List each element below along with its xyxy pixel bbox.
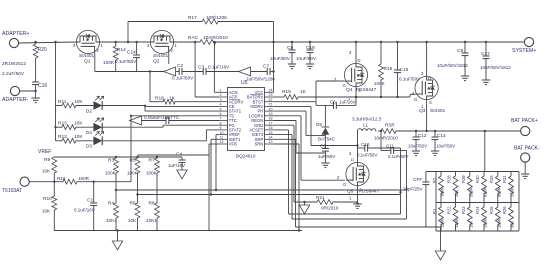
svg-text:R31: R31	[502, 175, 507, 183]
svg-text:1uF/50V: 1uF/50V	[318, 154, 336, 159]
svg-text:C15: C15	[400, 67, 409, 73]
wire	[102, 130, 219, 141]
wire	[130, 116, 132, 182]
ground	[306, 64, 314, 69]
svg-text:21: 21	[269, 103, 273, 107]
resistor R9	[42, 157, 57, 182]
wire	[213, 41, 219, 93]
capacitor C2	[172, 63, 194, 81]
resistor RSR	[374, 123, 520, 141]
wire gate row	[95, 71, 274, 73]
svg-text:910K: 910K	[483, 187, 488, 197]
svg-text:100K: 100K	[374, 81, 386, 86]
svg-text:24: 24	[269, 89, 273, 93]
svg-text:15: 15	[269, 131, 273, 135]
svg-text:T5103AT: T5103AT	[2, 188, 22, 194]
svg-text:10uF/50V: 10uF/50V	[436, 144, 455, 149]
capacitor C17	[480, 41, 511, 80]
ground arrow	[435, 227, 445, 260]
svg-text:G: G	[414, 97, 417, 102]
resistor R7	[146, 156, 159, 203]
svg-text:C12: C12	[418, 133, 427, 138]
svg-text:R2: R2	[432, 177, 437, 183]
ground arrow	[112, 229, 122, 250]
svg-text:13: 13	[269, 140, 273, 144]
svg-text:16: 16	[269, 126, 273, 130]
svg-text:C3: C3	[198, 65, 204, 71]
svg-text:0R/2010: 0R/2010	[321, 206, 339, 211]
label	[347, 189, 380, 195]
resistor R1	[432, 203, 445, 232]
resistor R29	[461, 172, 474, 203]
svg-text:R21: R21	[316, 195, 325, 200]
net VREF	[38, 149, 51, 155]
svg-text:R24: R24	[475, 206, 480, 214]
transistor Q3	[412, 76, 438, 109]
svg-text:D: D	[358, 58, 361, 63]
svg-text:R17: R17	[188, 15, 197, 21]
svg-text:C11: C11	[386, 144, 395, 149]
svg-text:100R: 100R	[78, 176, 90, 181]
wire	[209, 144, 219, 231]
svg-text:11: 11	[220, 136, 224, 140]
resistor R11	[56, 99, 94, 108]
svg-text:900K: 900K	[496, 187, 501, 197]
svg-text:130K: 130K	[483, 218, 488, 228]
svg-text:R26: R26	[502, 206, 507, 214]
svg-text:R8: R8	[149, 201, 155, 207]
svg-text:R28: R28	[447, 175, 452, 183]
svg-text:R19: R19	[282, 89, 291, 95]
transistor Q1	[73, 30, 104, 64]
svg-text:1: 1	[220, 89, 222, 93]
svg-text:D: D	[351, 157, 354, 162]
resistor R12	[56, 134, 94, 143]
svg-text:R14: R14	[117, 47, 126, 53]
svg-text:7: 7	[220, 117, 222, 121]
wire	[130, 115, 219, 117]
resistor R26	[502, 203, 515, 232]
wire	[274, 121, 326, 154]
transistor Q2	[147, 30, 178, 64]
resistor R25	[489, 203, 502, 232]
svg-text:19: 19	[269, 112, 273, 116]
svg-text:2.2uF/50V: 2.2uF/50V	[2, 71, 25, 77]
svg-text:330K: 330K	[510, 187, 515, 197]
svg-text:R11: R11	[58, 99, 67, 105]
svg-text:C10: C10	[361, 142, 370, 147]
svg-text:CFF: CFF	[413, 177, 422, 183]
wire	[54, 41, 56, 141]
svg-text:Q5: Q5	[347, 189, 354, 195]
svg-text:R15: R15	[384, 66, 393, 72]
resistor R19	[274, 89, 416, 99]
capacitor C13	[432, 130, 456, 151]
svg-text:10uF/50V: 10uF/50V	[408, 144, 427, 149]
resistor R6	[128, 201, 140, 231]
wire	[210, 139, 219, 195]
svg-text:0.1uF/50V: 0.1uF/50V	[115, 59, 137, 64]
svg-text:R9: R9	[44, 157, 50, 163]
wire bank top	[426, 171, 519, 173]
svg-text:D5: D5	[316, 122, 322, 127]
LED D2	[86, 96, 104, 113]
wire	[518, 172, 520, 232]
LED D4	[86, 118, 104, 135]
resistor R24	[475, 203, 488, 232]
svg-text:SI4401: SI4401	[79, 53, 95, 59]
svg-text:3: 3	[220, 98, 222, 102]
wire	[54, 230, 302, 232]
svg-text:C7: C7	[263, 64, 269, 70]
resistor R20	[2, 41, 47, 77]
resistor R17	[188, 15, 274, 24]
svg-text:Q3: Q3	[419, 108, 426, 114]
svg-text:C4: C4	[176, 152, 182, 158]
resistor R18	[149, 70, 219, 104]
svg-text:R3: R3	[108, 158, 114, 164]
capacitor C3	[198, 65, 230, 76]
node arrow	[164, 67, 176, 76]
svg-text:R25: R25	[489, 206, 494, 214]
svg-text:22K1: 22K1	[146, 218, 157, 223]
capacitor C15	[394, 41, 421, 97]
svg-text:10K: 10K	[74, 121, 83, 127]
capacitor C5	[318, 144, 336, 164]
capacitor C16	[32, 58, 47, 98]
wire	[421, 41, 431, 81]
ground	[482, 80, 490, 85]
svg-text:10uF/50V: 10uF/50V	[270, 56, 291, 61]
svg-text:10: 10	[220, 131, 224, 135]
svg-text:100K: 100K	[127, 171, 139, 176]
svg-text:0.1uF/50V: 0.1uF/50V	[357, 153, 377, 158]
svg-text:R6: R6	[130, 201, 136, 207]
wire main rail	[19, 42, 525, 43]
resistor R14	[103, 41, 126, 72]
svg-text:0.1uF/50V: 0.1uF/50V	[172, 76, 194, 81]
capacitor C12	[408, 130, 427, 151]
svg-text:100K: 100K	[496, 218, 501, 228]
svg-text:R33: R33	[489, 175, 494, 183]
svg-text:1uF/16V: 1uF/16V	[339, 100, 356, 105]
svg-text:C16: C16	[38, 83, 47, 89]
wire	[102, 105, 219, 111]
svg-text:23: 23	[269, 93, 273, 97]
wire	[138, 155, 209, 157]
node	[355, 96, 399, 98]
wire	[274, 111, 326, 136]
svg-text:10K: 10K	[42, 169, 51, 174]
svg-text:R20: R20	[38, 47, 47, 53]
svg-text:5: 5	[220, 107, 222, 111]
wire	[405, 151, 407, 220]
svg-text:R18: R18	[155, 96, 164, 102]
capacitor CFF	[403, 172, 429, 228]
wire	[484, 130, 486, 172]
resistor R30	[475, 172, 488, 203]
svg-text:6: 6	[220, 112, 222, 116]
wire	[194, 41, 219, 97]
svg-text:10K: 10K	[74, 134, 83, 140]
svg-text:2: 2	[220, 93, 222, 97]
wire	[272, 22, 274, 93]
capacitor C8	[270, 41, 296, 64]
svg-text:R16: R16	[57, 176, 66, 181]
resistor R33	[489, 172, 502, 203]
capacitor C9	[437, 41, 469, 76]
svg-text:D4: D4	[86, 130, 92, 135]
connector ADAPTER-	[2, 86, 37, 103]
svg-text:R12: R12	[58, 134, 67, 140]
connector ADAPTER+	[2, 31, 30, 48]
svg-text:R30: R30	[475, 175, 480, 183]
svg-text:D2: D2	[86, 109, 92, 114]
svg-text:C13: C13	[437, 133, 446, 138]
svg-text:SI4401: SI4401	[430, 108, 446, 114]
svg-text:S: S	[429, 100, 432, 105]
svg-text:Q4: Q4	[346, 87, 353, 93]
node arrow	[239, 67, 251, 76]
label	[419, 108, 446, 114]
ground arrow	[299, 201, 309, 214]
wire	[274, 135, 407, 219]
svg-text:Q2: Q2	[153, 59, 160, 65]
wire	[94, 54, 96, 72]
capacitor C4	[168, 152, 186, 171]
svg-text:C17: C17	[481, 51, 490, 57]
svg-text:BAT54C: BAT54C	[318, 137, 336, 142]
svg-text:D3: D3	[86, 144, 92, 149]
svg-text:FDS6447: FDS6447	[356, 87, 377, 93]
wire	[215, 135, 219, 192]
resistor R16	[53, 176, 131, 184]
svg-text:22pF/25V: 22pF/25V	[403, 187, 423, 192]
wire	[274, 125, 318, 202]
svg-text:30K: 30K	[454, 189, 459, 197]
wire	[349, 41, 361, 64]
resistor R28	[447, 172, 460, 203]
resistor R8	[146, 201, 159, 231]
svg-text:ADAPTER+: ADAPTER+	[2, 31, 30, 37]
ground	[321, 163, 329, 168]
svg-text:C14: C14	[127, 50, 136, 56]
svg-text:4: 4	[220, 103, 222, 107]
wire	[274, 106, 358, 145]
svg-text:R23: R23	[461, 206, 466, 214]
wire	[102, 125, 219, 127]
resistor R13	[54, 121, 93, 130]
svg-text:10K: 10K	[74, 99, 83, 105]
ground	[288, 64, 296, 69]
svg-text:C6: C6	[330, 100, 336, 105]
svg-text:9: 9	[220, 126, 222, 130]
svg-text:VREF: VREF	[38, 149, 51, 155]
svg-text:30K: 30K	[510, 220, 515, 228]
capacitor C18	[296, 41, 317, 64]
wire	[127, 22, 202, 44]
op-amp U5 BQ24610	[219, 80, 274, 159]
ground	[412, 151, 420, 156]
svg-text:R5: R5	[130, 158, 136, 164]
capacitor C14	[115, 41, 140, 72]
ground arrow	[177, 170, 187, 179]
svg-text:10mR/2010: 10mR/2010	[374, 136, 398, 141]
resistor R31	[502, 172, 515, 203]
wire long FB1	[115, 189, 407, 191]
svg-text:SYSTEM+: SYSTEM+	[512, 48, 536, 54]
connector BAT-PACK-	[514, 146, 540, 175]
svg-text:10K: 10K	[468, 220, 473, 228]
svg-text:32K4: 32K4	[106, 218, 117, 223]
svg-text:10mR/2010: 10mR/2010	[203, 35, 228, 41]
wire	[399, 148, 401, 214]
svg-text:R4: R4	[108, 201, 114, 207]
resistor R4	[106, 201, 118, 231]
ground	[31, 98, 39, 103]
resistor R22	[447, 203, 460, 232]
svg-text:VFB: VFB	[229, 142, 237, 147]
svg-text:18: 18	[269, 117, 273, 121]
wire	[274, 144, 301, 232]
svg-text:C8: C8	[287, 45, 293, 51]
resistor RAC	[188, 35, 228, 44]
svg-text:8: 8	[220, 121, 222, 125]
wire	[274, 116, 346, 180]
svg-text:R13: R13	[58, 121, 67, 127]
svg-text:C1: C1	[87, 198, 93, 204]
svg-text:12: 12	[220, 140, 224, 144]
wire	[168, 54, 170, 65]
connector T5103AT	[2, 177, 54, 194]
wire	[425, 100, 427, 133]
svg-text:G: G	[343, 182, 346, 187]
svg-text:17: 17	[269, 121, 273, 125]
svg-text:FDS6447: FDS6447	[359, 189, 380, 195]
svg-text:C2: C2	[177, 63, 183, 69]
svg-text:1uF/16V: 1uF/16V	[168, 163, 185, 168]
svg-text:130K: 130K	[454, 218, 459, 228]
wire	[435, 172, 437, 232]
capacitor C6	[316, 87, 356, 109]
svg-text:20: 20	[269, 107, 273, 111]
wire long FB2	[136, 193, 400, 195]
svg-text:R1: R1	[432, 208, 437, 214]
svg-text:0.1uF/16V: 0.1uF/16V	[208, 65, 230, 70]
svg-text:2R1W2512: 2R1W2512	[2, 61, 26, 67]
svg-text:10K: 10K	[42, 209, 51, 214]
resistor R10	[42, 182, 57, 231]
svg-text:R29: R29	[461, 175, 466, 183]
capacitor CTTC	[130, 115, 220, 125]
resistor R2	[432, 172, 445, 203]
inductor L1	[352, 117, 382, 132]
svg-text:R7: R7	[149, 158, 155, 164]
wire	[356, 186, 358, 205]
svg-text:100K: 100K	[146, 171, 158, 176]
wire bank bottom	[436, 230, 519, 232]
wire	[54, 156, 182, 158]
ground	[431, 151, 439, 156]
svg-text:100K: 100K	[440, 218, 445, 228]
resistor R15	[374, 41, 393, 97]
svg-text:BQ24610: BQ24610	[236, 154, 256, 159]
svg-text:10uF/50V/1812: 10uF/50V/1812	[480, 65, 511, 70]
svg-text:Q1: Q1	[84, 59, 91, 65]
svg-text:L1: L1	[363, 123, 369, 128]
svg-text:0.1uF/50V: 0.1uF/50V	[388, 154, 408, 159]
svg-text:100K: 100K	[103, 60, 115, 66]
ground	[353, 204, 361, 209]
connector SYSTEM+	[512, 37, 536, 54]
svg-text:RSR: RSR	[385, 123, 395, 128]
ground	[521, 174, 529, 179]
svg-text:14: 14	[269, 136, 273, 140]
ground	[461, 76, 469, 81]
wire	[274, 130, 401, 214]
wire	[274, 139, 441, 227]
svg-text:100K: 100K	[105, 171, 117, 176]
transistor Q4	[334, 63, 368, 100]
svg-text:10K: 10K	[128, 218, 137, 223]
svg-text:R22: R22	[447, 206, 452, 214]
svg-text:C5: C5	[320, 144, 326, 150]
diode D5	[316, 105, 336, 148]
capacitor C1	[74, 181, 97, 231]
wire bank mid	[436, 202, 519, 204]
capacitor C7	[246, 64, 275, 82]
wire	[274, 81, 345, 105]
svg-text:C18: C18	[306, 45, 315, 51]
svg-text:RAC: RAC	[188, 35, 199, 41]
svg-text:10R/1206: 10R/1206	[206, 15, 227, 21]
svg-text:SRN: SRN	[254, 142, 263, 147]
svg-text:C9: C9	[457, 48, 463, 54]
svg-text:100K: 100K	[440, 187, 445, 197]
svg-text:R10: R10	[43, 196, 52, 202]
capacitor C11	[380, 130, 409, 159]
transistor Q5	[337, 162, 369, 200]
svg-text:10uF/50V/1812: 10uF/50V/1812	[437, 63, 468, 68]
svg-text:1uF/50V/1206: 1uF/50V/1206	[246, 77, 275, 82]
svg-text:BAT PACK-: BAT PACK-	[514, 146, 540, 152]
svg-text:SI4401: SI4401	[153, 53, 169, 59]
resistor R23	[461, 203, 474, 232]
capacitor C10	[357, 142, 401, 158]
svg-text:500K: 500K	[468, 187, 473, 197]
connector BAT-PACK+	[511, 118, 538, 136]
svg-text:1K: 1K	[169, 96, 176, 102]
wire	[349, 131, 359, 162]
resistor R5	[127, 156, 140, 203]
svg-text:ADAPTER-: ADAPTER-	[2, 97, 29, 103]
resistor R3	[105, 156, 118, 203]
svg-text:0.1uF/16V: 0.1uF/16V	[74, 208, 95, 213]
svg-text:22: 22	[269, 98, 273, 102]
LED D3	[86, 131, 104, 148]
svg-text:1K: 1K	[300, 89, 307, 95]
svg-text:10uF/50V: 10uF/50V	[296, 56, 317, 61]
label	[356, 87, 377, 93]
svg-text:BAT PACK+: BAT PACK+	[511, 118, 538, 124]
resistor R21	[316, 195, 358, 211]
svg-text:3.3uH/9A/12.5: 3.3uH/9A/12.5	[352, 117, 382, 122]
svg-text:U5: U5	[241, 80, 248, 86]
